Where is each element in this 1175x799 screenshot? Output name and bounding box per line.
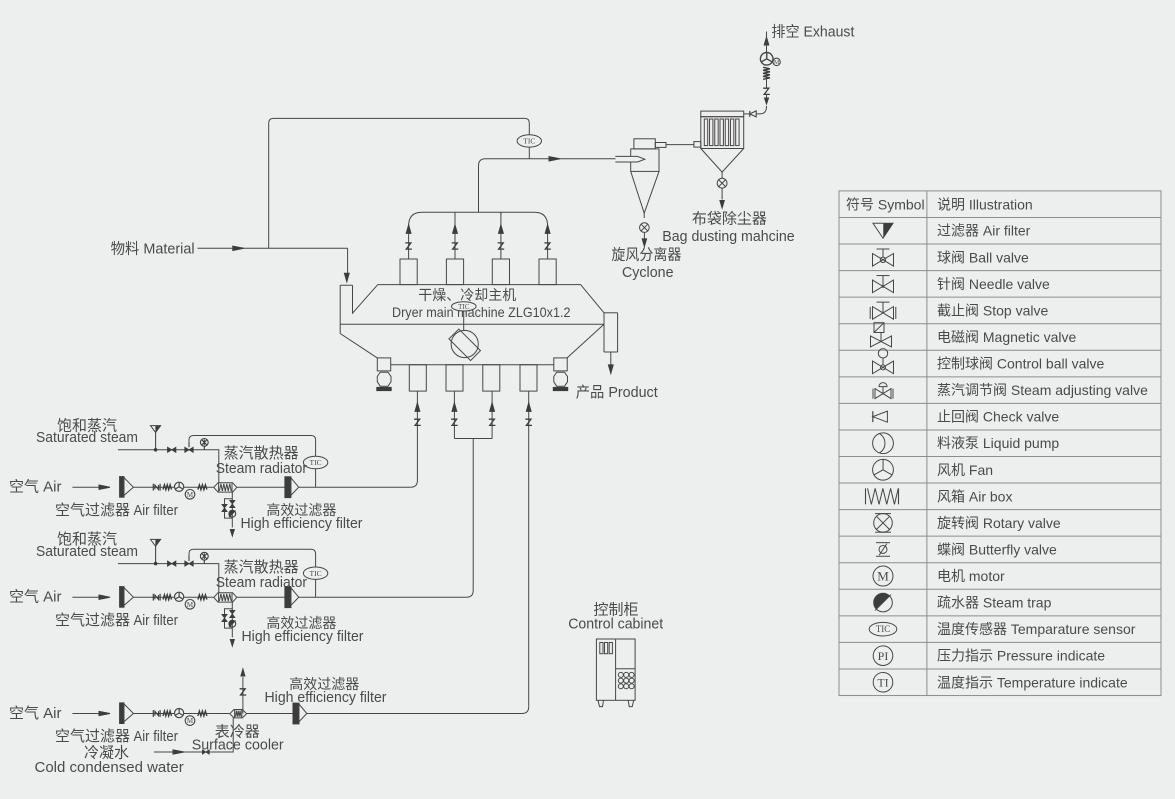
wire top riser 3	[500, 212, 502, 259]
wire feed drop into dryer inlet	[347, 248, 349, 273]
svg-text:压力指示 Pressure indicate: 压力指示 Pressure indicate	[937, 648, 1105, 664]
wire air line to dryer riser	[307, 713, 522, 715]
svg-text:空气过滤器: 空气过滤器	[55, 728, 130, 745]
cyclone cone	[631, 171, 659, 213]
fan	[175, 592, 184, 601]
svg-text:针阀 Needle valve: 针阀 Needle valve	[937, 276, 1050, 292]
arrow bottom riser 2 (up)	[452, 403, 457, 412]
rotary discharge valve on dryer hopper	[451, 330, 478, 357]
motor M	[185, 490, 195, 500]
svg-text:Air filter: Air filter	[134, 613, 179, 629]
butterfly valve top riser 4	[544, 243, 551, 249]
cyclone outlet stub	[655, 143, 666, 148]
cyclone vortex finder	[634, 139, 655, 149]
legend symbol temperature indicate TI	[873, 672, 893, 692]
svg-text:旋风分离器: 旋风分离器	[611, 247, 681, 264]
svg-text:PI: PI	[878, 649, 889, 663]
wire TIC control line up and left to feed	[269, 118, 530, 248]
legend symbol needle valve	[873, 280, 884, 293]
svg-text:Dryer main machine ZLG10x1.2: Dryer main machine ZLG10x1.2	[392, 304, 571, 320]
dryer shell bottom edge	[340, 323, 604, 325]
flexible joint	[152, 484, 154, 491]
wire exhaust stack	[766, 32, 768, 53]
svg-text:High efficiency filter: High efficiency filter	[242, 629, 364, 645]
butterfly valve on exhaust line	[763, 88, 770, 94]
wire air line to dryer riser	[299, 596, 467, 598]
svg-text:符号 Symbol: 符号 Symbol	[846, 196, 925, 212]
svg-text:空气 Air: 空气 Air	[9, 589, 62, 606]
legend symbol butterfly valve	[879, 545, 887, 553]
legend symbol control ball valve	[873, 361, 884, 374]
air filter on steam line (stem)	[155, 546, 157, 563]
wire top riser 2	[454, 212, 456, 259]
air filter on steam line (triangle)	[151, 539, 161, 546]
air box 1	[163, 485, 172, 490]
legend symbol air box	[865, 488, 867, 504]
right discharge base bar	[553, 387, 567, 390]
arrow on exhaust riser (down)	[765, 98, 769, 104]
legend table frame	[839, 191, 1161, 696]
wire hopper to rotary valve	[721, 172, 723, 178]
svg-text:Saturated steam: Saturated steam	[36, 430, 138, 446]
svg-text:Bag dusting mahcine: Bag dusting mahcine	[662, 229, 794, 245]
svg-text:TIC: TIC	[876, 624, 891, 634]
right discharge square	[554, 358, 567, 371]
svg-text:M: M	[187, 601, 194, 609]
left discharge base bar	[377, 387, 391, 390]
butterfly valve top riser 2	[452, 243, 459, 249]
bag dusting machine header	[701, 111, 744, 117]
steam trap	[229, 620, 236, 627]
svg-text:止回阀 Check valve: 止回阀 Check valve	[937, 409, 1059, 425]
dryer bottom port 1	[409, 365, 426, 391]
bag dusting machine body	[701, 117, 744, 149]
condensate bypass loop	[225, 499, 233, 518]
valve on condensate drain	[230, 610, 235, 614]
butterfly valve bottom riser 3	[489, 419, 496, 425]
left discharge square	[377, 358, 390, 371]
wire air line after radiator	[237, 486, 285, 488]
arrow feed into dryer (down)	[344, 273, 349, 282]
legend symbol temperature sensor TIC	[869, 622, 897, 636]
wire air line	[133, 713, 213, 715]
svg-text:M: M	[877, 569, 889, 584]
svg-text:空气过滤器: 空气过滤器	[55, 612, 130, 629]
vent branch above surface cooler	[242, 677, 244, 714]
wire cyclone discharge	[643, 232, 645, 239]
butterfly valve bottom riser 4	[525, 419, 532, 425]
svg-text:排空 Exhaust: 排空 Exhaust	[771, 24, 855, 41]
air box 1	[163, 595, 172, 600]
control loop from steam valve to TIC	[189, 436, 316, 488]
svg-text:Surface cooler: Surface cooler	[192, 738, 284, 754]
wire check valve to bag filter	[744, 113, 750, 115]
svg-text:High efficiency filter: High efficiency filter	[241, 516, 363, 532]
svg-text:控制球阀 Control ball valve: 控制球阀 Control ball valve	[937, 356, 1104, 372]
valve on condensate drain	[230, 500, 235, 504]
arrow condensate out (down)	[230, 640, 234, 647]
wire air riser 4 bend into air line 3	[522, 707, 529, 714]
legend symbol pressure indicate PI	[873, 646, 893, 666]
svg-text:TIC: TIC	[523, 136, 535, 145]
valve on condensate bypass	[222, 504, 227, 508]
node air system 1	[9, 417, 411, 536]
flexible joint	[152, 594, 154, 601]
motor M	[185, 600, 195, 610]
svg-text:Cyclone: Cyclone	[622, 265, 674, 281]
control loop from steam valve to TIC	[189, 549, 316, 597]
arrow vent (up)	[241, 669, 245, 676]
fan exhaust fan	[760, 53, 773, 66]
arrow product outlet (down)	[608, 365, 613, 374]
butterfly valve top riser 1	[405, 243, 412, 249]
svg-text:M: M	[187, 491, 194, 499]
cyclone body	[631, 149, 659, 172]
valve on condensate bypass	[222, 614, 227, 618]
temperature sensor TIC on exhaust pipe	[517, 135, 541, 147]
arrow top riser 3 (up)	[499, 225, 504, 234]
dryer outlet step	[604, 312, 618, 314]
svg-text:Cold condensed water: Cold condensed water	[35, 759, 184, 776]
bag filter hopper	[701, 149, 744, 173]
dryer top port 2	[446, 259, 463, 285]
motor M	[185, 716, 195, 726]
svg-text:温度指示 Temperature indicate: 温度指示 Temperature indicate	[937, 674, 1128, 690]
wire bottom riser 3	[491, 391, 493, 438]
butterfly valve on vent branch	[240, 689, 247, 695]
butterfly valve bottom riser 1	[414, 419, 421, 425]
air box 2	[198, 711, 207, 716]
arrow bottom riser 4 (up)	[526, 403, 531, 412]
wire air riser 1 bend into air line 1	[411, 481, 418, 488]
wire air line after surface cooler	[247, 713, 293, 715]
svg-text:TIC: TIC	[310, 458, 322, 467]
legend symbol steam adjusting valve	[875, 389, 883, 399]
dryer right hopper side	[567, 324, 604, 358]
legend symbol rotary valve	[874, 514, 893, 533]
valve on condensed water line	[202, 750, 205, 754]
butterfly valve bottom riser 2	[451, 419, 458, 425]
wire air line to surface cooler	[214, 713, 230, 715]
arrow on pipe to cyclone (right)	[549, 157, 560, 161]
bag filter inlet stub	[694, 142, 701, 148]
wire air line	[133, 596, 213, 598]
legend symbol liquid pump	[873, 433, 894, 454]
svg-text:旋转阀 Rotary valve: 旋转阀 Rotary valve	[937, 515, 1061, 531]
arrow top riser 4 (up)	[545, 225, 550, 234]
node air system 3	[9, 669, 522, 776]
wire product outlet	[610, 352, 612, 365]
svg-text:蒸汽调节阀 Steam adjusting valve: 蒸汽调节阀 Steam adjusting valve	[937, 382, 1148, 398]
control cabinet right leg	[628, 700, 634, 706]
svg-text:Control cabinet: Control cabinet	[568, 617, 663, 633]
dryer product outlet chute	[604, 313, 618, 352]
cyclone inlet duct	[615, 156, 645, 162]
wire TIC stem to pipe	[528, 147, 530, 159]
svg-text:蒸汽散热器: 蒸汽散热器	[224, 445, 299, 462]
svg-text:M: M	[187, 717, 194, 725]
wire dryer TIC stem	[463, 311, 465, 324]
wire air line after radiator	[237, 596, 285, 598]
legend symbol ball valve	[873, 254, 884, 267]
node air system 2	[9, 531, 467, 646]
legend symbol stop valve	[873, 307, 884, 320]
wire condensate drain	[231, 492, 233, 528]
control cabinet indicator windows	[600, 643, 613, 654]
wire merged middle air riser	[467, 439, 474, 598]
svg-text:TIC: TIC	[310, 569, 322, 578]
dryer top port 1	[400, 259, 417, 285]
dryer bottom port 4	[520, 365, 537, 391]
svg-text:Steam radiator: Steam radiator	[216, 461, 307, 477]
arrow bottom riser 1 (up)	[415, 403, 420, 412]
air box below exhaust fan	[763, 67, 770, 79]
svg-text:物料 Material: 物料 Material	[111, 241, 195, 258]
svg-text:干燥、冷却主机: 干燥、冷却主机	[418, 287, 516, 303]
steam radiator coil	[214, 483, 237, 492]
right discharge valve body	[554, 372, 568, 386]
steam adjusting valve on steam line	[185, 447, 189, 452]
fan	[175, 482, 184, 491]
svg-text:TIC: TIC	[458, 303, 470, 311]
dryer left hopper side	[340, 324, 377, 358]
svg-text:蝶阀 Butterfly valve: 蝶阀 Butterfly valve	[937, 541, 1057, 557]
flexible joint	[152, 710, 154, 717]
arrow air inlet (right)	[72, 596, 101, 598]
air filter on steam line (stem)	[155, 433, 157, 450]
ball valve on steam line	[168, 447, 172, 452]
legend symbol magnetic valve	[871, 336, 882, 347]
legend table column divider	[926, 191, 928, 696]
svg-text:疏水器 Steam trap: 疏水器 Steam trap	[937, 595, 1052, 611]
steam radiator coil	[214, 593, 237, 602]
wire dryer outlet pipe to cyclone	[479, 159, 616, 212]
wire riser 2-3 merge header	[454, 438, 492, 440]
svg-text:产品 Product: 产品 Product	[576, 384, 659, 401]
svg-text:Air filter: Air filter	[134, 729, 179, 745]
svg-text:电磁阀 Magnetic valve: 电磁阀 Magnetic valve	[937, 329, 1076, 345]
wire cold condensed water line	[154, 717, 233, 752]
legend symbol motor	[873, 566, 893, 586]
svg-text:布袋除尘器: 布袋除尘器	[692, 211, 767, 228]
svg-text:球阀 Ball valve: 球阀 Ball valve	[937, 249, 1029, 265]
arrow condensed water (right)	[173, 750, 184, 754]
dryer hopper bottom	[391, 364, 554, 366]
wire material feed line	[198, 247, 348, 249]
svg-text:TI: TI	[877, 676, 888, 690]
dryer bottom port 3	[483, 365, 500, 391]
air filter (big)	[120, 587, 124, 608]
control cabinet buttons	[618, 672, 634, 688]
control cabinet body	[596, 639, 635, 700]
svg-text:空气过滤器: 空气过滤器	[55, 502, 130, 519]
temperature sensor TIC on dryer	[452, 302, 477, 311]
dryer inlet chute	[340, 285, 378, 325]
wire cone to rotary valve	[643, 213, 645, 218]
wire bottom riser 1	[416, 391, 418, 480]
wire bottom riser 2	[453, 391, 455, 438]
svg-text:M: M	[774, 60, 780, 66]
svg-text:High efficiency filter: High efficiency filter	[265, 690, 387, 706]
svg-text:过滤器 Air filter: 过滤器 Air filter	[937, 223, 1031, 239]
butterfly valve top riser 3	[498, 243, 505, 249]
wire rotary valve discharge	[721, 188, 723, 199]
air filter on steam line (triangle)	[151, 426, 161, 433]
wire air line	[133, 486, 213, 488]
svg-text:Steam radiator: Steam radiator	[216, 575, 307, 591]
rotary valve under cyclone	[640, 223, 650, 233]
legend symbol air filter	[873, 223, 893, 238]
dryer bottom port 2	[446, 365, 463, 391]
pressure gauge on steam line	[200, 439, 208, 447]
legend table row lines	[839, 217, 1161, 669]
arrow bag filter discharge (down)	[720, 201, 724, 209]
svg-text:Air filter: Air filter	[134, 503, 179, 519]
arrow top riser 2 (up)	[453, 225, 458, 234]
surface cooler coil	[230, 710, 247, 718]
control cabinet door split	[615, 639, 617, 700]
exhaust manifold over dryer	[409, 212, 548, 226]
air box 1	[163, 711, 172, 716]
svg-text:温度传感器 Temparature sensor: 温度传感器 Temparature sensor	[937, 621, 1136, 637]
legend symbol steam trap	[874, 593, 893, 612]
wire big rotary valve stem	[463, 324, 465, 331]
arrow cyclone discharge (down)	[642, 239, 646, 247]
control cabinet left leg	[598, 700, 604, 706]
wire bottom riser 4	[528, 391, 530, 707]
svg-text:电机 motor: 电机 motor	[937, 568, 1005, 584]
wire valve to bend	[766, 95, 768, 100]
arrow bottom riser 3 (up)	[490, 403, 495, 412]
wire air line to dryer riser	[299, 486, 411, 488]
high efficiency filter	[293, 703, 299, 724]
svg-text:截止阀 Stop valve: 截止阀 Stop valve	[937, 302, 1048, 318]
wire top riser 1	[408, 226, 410, 259]
air filter (big)	[120, 703, 124, 724]
fan	[175, 709, 184, 718]
arrow air inlet (right)	[72, 486, 101, 488]
bag filter bags	[704, 119, 739, 146]
wire saturated steam line	[118, 450, 219, 483]
dryer top shell edge	[378, 285, 604, 313]
air filter (big)	[120, 477, 124, 498]
legend symbol check valve	[873, 411, 888, 422]
svg-text:料液泵 Liquid pump: 料液泵 Liquid pump	[937, 435, 1059, 451]
pressure gauge on steam line	[200, 552, 208, 560]
svg-text:空气 Air: 空气 Air	[9, 479, 62, 496]
high efficiency filter	[285, 477, 291, 498]
arrow material feed (right)	[233, 246, 244, 250]
condensate bypass loop	[225, 609, 233, 628]
dryer top port 4	[539, 259, 556, 285]
legend symbol fan	[873, 459, 894, 480]
arrow condensate out (down)	[230, 530, 234, 537]
wire fan to valve	[766, 79, 768, 88]
wire exhaust bend to check valve	[756, 106, 766, 114]
svg-text:Saturated steam: Saturated steam	[36, 544, 138, 560]
wire condensate drain	[231, 602, 233, 638]
dryer top port 3	[492, 259, 509, 285]
wire saturated steam line	[118, 564, 219, 593]
arrow exhaust outlet (up)	[764, 37, 769, 45]
svg-text:风箱 Air box: 风箱 Air box	[937, 488, 1012, 504]
temperature sensor TIC on control loop	[303, 567, 327, 579]
ball valve on steam line	[168, 561, 172, 566]
arrow top riser 1 (up)	[406, 225, 411, 234]
air box 2	[198, 595, 207, 600]
motor exhaust fan motor M	[773, 58, 780, 65]
svg-text:空气 Air: 空气 Air	[9, 705, 62, 722]
wire top riser 4	[547, 226, 549, 259]
steam adjusting valve on steam line	[185, 561, 189, 566]
rotary valve under bag filter	[717, 178, 727, 188]
steam trap	[229, 510, 236, 517]
wire cyclone outlet to bag filter inlet	[666, 144, 694, 146]
check valve on bag filter outlet	[750, 111, 756, 117]
arrow air inlet (right)	[72, 713, 101, 715]
svg-text:蒸汽散热器: 蒸汽散热器	[224, 559, 299, 576]
air box 2	[198, 485, 207, 490]
svg-text:说明 Illustration: 说明 Illustration	[937, 196, 1033, 212]
svg-text:风机 Fan: 风机 Fan	[937, 462, 993, 478]
left discharge valve body	[377, 372, 391, 386]
high efficiency filter	[285, 587, 291, 608]
temperature sensor TIC on control loop	[303, 456, 327, 468]
control cabinet right panel split	[616, 668, 636, 670]
